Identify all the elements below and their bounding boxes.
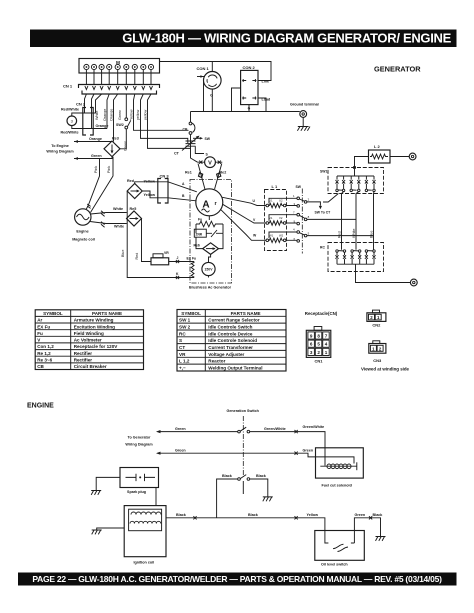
reactor L1 winding W [266, 233, 286, 242]
fuel cut solenoid S [316, 448, 364, 488]
svg-text:White: White [352, 229, 356, 238]
wire green/white to solenoid [250, 425, 325, 466]
wire to CN2 pin1 [85, 94, 87, 113]
svg-text:7: 7 [325, 333, 328, 338]
svg-text:Current Transformer: Current Transformer [208, 345, 253, 350]
label to generator wiring diagram [125, 436, 153, 447]
svg-text:Fuel cut solenoid: Fuel cut solenoid [322, 484, 353, 488]
breaker switch CB [183, 112, 198, 163]
svg-text:Spark plug: Spark plug [127, 490, 146, 494]
voltage adjuster VR [151, 251, 169, 265]
wire yellow 2 [141, 94, 188, 143]
svg-text:Wiring Diagram: Wiring Diagram [46, 150, 74, 154]
wire CON1 drop [211, 62, 213, 72]
wire black left of SW2b [217, 479, 238, 518]
connector CN3 detail [369, 341, 386, 363]
connector CN3 [158, 174, 170, 204]
svg-text:Re3: Re3 [112, 137, 119, 141]
wire B from Re4 to generator [142, 191, 196, 201]
svg-text:GENERATOR: GENERATOR [374, 65, 421, 74]
svg-text:Yellow: Yellow [144, 193, 156, 197]
wire green lower [156, 449, 354, 464]
ground symbol [297, 127, 310, 131]
svg-text:J: J [177, 256, 179, 260]
svg-text:CT: CT [179, 345, 185, 350]
svg-text:ZNR: ZNR [196, 232, 203, 236]
svg-text:Re 3~6: Re 3~6 [37, 358, 52, 363]
svg-text:Engine: Engine [76, 230, 88, 234]
svg-text:Rectifier: Rectifier [74, 358, 93, 363]
svg-text:Voltage Adjuster: Voltage Adjuster [208, 352, 244, 357]
wire spark plug to ground [96, 477, 120, 490]
svg-text:SW 1: SW 1 [179, 318, 191, 323]
svg-text:L 1: L 1 [272, 184, 278, 189]
svg-text:To Generator: To Generator [128, 436, 151, 440]
svg-text:Ar: Ar [37, 318, 42, 323]
svg-text:Green: Green [124, 141, 128, 151]
idle control device RC box [320, 243, 384, 272]
svg-text:Black: Black [248, 513, 259, 517]
rectifier Re1 [185, 164, 205, 190]
svg-text:GLW-180H — WIRING DIAGRAM GENE: GLW-180H — WIRING DIAGRAM GENERATOR/ ENG… [122, 31, 451, 46]
wire blue drop [369, 192, 374, 243]
svg-text:Red: Red [337, 231, 341, 238]
svg-text:CN2: CN2 [372, 323, 381, 328]
ground spark plug [91, 491, 101, 495]
svg-text:Orange: Orange [103, 109, 107, 121]
svg-text:Re 1,2: Re 1,2 [37, 351, 51, 356]
svg-text:S: S [179, 338, 182, 343]
svg-text:L 2: L 2 [374, 144, 380, 149]
svg-text:Black: Black [373, 513, 384, 517]
svg-text:CT: CT [174, 152, 180, 156]
svg-text:9: 9 [310, 333, 313, 338]
svg-text:Green: Green [91, 154, 102, 158]
svg-text:Orange: Orange [96, 124, 109, 128]
svg-text:V: V [208, 160, 212, 166]
rectifier Re5 [127, 207, 142, 226]
wire L2 to SW1 [355, 157, 369, 168]
wire CON1 to bus [204, 81, 213, 112]
svg-text:V2: V2 [279, 216, 283, 220]
svg-text:SW1: SW1 [320, 170, 327, 174]
switch SW2a [238, 427, 250, 433]
svg-text:Brushless Ac Generator: Brushless Ac Generator [189, 286, 232, 290]
svg-text:ENGINE: ENGINE [27, 403, 54, 410]
svg-text:VR: VR [179, 352, 186, 357]
svg-text:Pink: Pink [94, 166, 98, 173]
svg-text:SYMBOL: SYMBOL [181, 311, 201, 316]
svg-text:Field Winding: Field Winding [74, 331, 104, 336]
ground terminal [290, 103, 319, 127]
connector CN1 detail [306, 327, 331, 364]
terminal strip M [79, 59, 160, 74]
svg-text:Red: Red [127, 179, 135, 183]
wire yellow 1 [134, 94, 189, 130]
current transformer CT [174, 136, 211, 157]
svg-text:Pink: Pink [107, 166, 111, 173]
svg-text:2: 2 [317, 350, 320, 355]
svg-text:EX Fu: EX Fu [37, 324, 50, 329]
reactor L1 winding U [266, 199, 286, 208]
svg-text:yellow: yellow [136, 109, 140, 120]
wire RC to minus terminal [356, 264, 411, 282]
svg-text:Black: Black [256, 474, 267, 478]
svg-text:Yellow: Yellow [307, 513, 319, 517]
svg-text:White: White [114, 225, 124, 229]
magneto coil [72, 209, 95, 242]
wire white lower to Re5 [90, 222, 127, 229]
svg-text:CON 2: CON 2 [243, 65, 256, 70]
connector CN1 [63, 84, 160, 95]
svg-text:EX Fu: EX Fu [187, 257, 197, 261]
label to engine wiring diagram [46, 144, 74, 154]
rectifier Re2 [215, 164, 227, 190]
svg-text:Receptacle for 120V: Receptacle for 120V [74, 344, 119, 349]
generation switch gang line [242, 416, 244, 477]
wire green to engine [74, 154, 112, 160]
wire pink 1 [86, 159, 100, 210]
svg-text:CN3: CN3 [373, 358, 382, 363]
svg-text:Re6: Re6 [194, 244, 200, 248]
svg-text:Red: Red [135, 253, 139, 260]
connector CN2 [76, 102, 93, 136]
svg-text:Re1: Re1 [185, 171, 192, 175]
wire circle to Fu [208, 216, 210, 220]
welding output terminal + [390, 153, 416, 160]
svg-text:Re2: Re2 [220, 171, 227, 175]
wire to CN2 pin2 [92, 94, 95, 129]
current range selector SW1 box [320, 166, 384, 193]
svg-text:CB: CB [183, 128, 188, 132]
svg-text:L 1,2: L 1,2 [179, 359, 190, 364]
wire W from generator [221, 210, 266, 241]
svg-text:Line: Line [262, 79, 270, 83]
svg-text:RC: RC [320, 246, 325, 250]
svg-text:Ground terminal: Ground terminal [290, 103, 319, 107]
svg-text:Excitation Winding: Excitation Winding [74, 324, 115, 329]
svg-text:Green/White: Green/White [303, 425, 325, 429]
svg-text:Re5: Re5 [130, 207, 137, 211]
svg-text:W2: W2 [279, 233, 284, 237]
ground ignition coil [92, 530, 102, 534]
wire top bus from strip to CB [160, 62, 272, 81]
svg-text:+,−: +,− [179, 366, 186, 371]
svg-text:Green: Green [303, 449, 314, 453]
svg-text:yellow: yellow [143, 109, 147, 120]
brushless generator dashed box [190, 180, 232, 284]
svg-text:CN 2: CN 2 [76, 102, 86, 107]
reactor L1 box [265, 184, 287, 251]
welding output terminal minus [410, 279, 417, 286]
svg-text:Oil level switch: Oil level switch [321, 563, 348, 567]
wire L1 taps to selector [269, 198, 297, 241]
svg-text:5: 5 [317, 342, 320, 347]
svg-text:RC: RC [179, 331, 186, 336]
wire orange 2 [114, 94, 118, 142]
svg-text:Current Range Selector: Current Range Selector [208, 318, 260, 323]
wire white upper to Re5 [91, 207, 127, 216]
pilot lamp [61, 108, 109, 135]
svg-text:Black: Black [176, 513, 187, 517]
wire U from generator [222, 197, 266, 205]
svg-text:CB: CB [37, 364, 44, 369]
resistor Fu [196, 218, 223, 227]
svg-text:Armature Winding: Armature Winding [74, 318, 114, 323]
svg-text:CN1: CN1 [314, 359, 323, 364]
svg-text:Generation Switch: Generation Switch [227, 409, 260, 413]
svg-text:Receptacle(CN): Receptacle(CN) [305, 311, 338, 316]
svg-text:Fu: Fu [37, 331, 43, 336]
wire ground bus [191, 111, 300, 113]
footer bar [18, 573, 457, 586]
svg-text:Orange: Orange [109, 109, 113, 121]
svg-text:1: 1 [325, 350, 328, 355]
svg-text:SW: SW [205, 137, 211, 141]
svg-text:CN 1: CN 1 [63, 84, 73, 89]
svg-text:Idle Controle Switch: Idle Controle Switch [208, 325, 252, 330]
svg-text:Ignition coil: Ignition coil [134, 561, 155, 565]
rectifier Re4 [127, 179, 155, 199]
rectifier Re6 [194, 233, 224, 254]
svg-text:8: 8 [317, 333, 320, 338]
svg-text:Green: Green [175, 427, 186, 431]
svg-text:Green: Green [355, 513, 366, 517]
wire selector row3 to blue [307, 235, 374, 237]
wire black ignition to oil switch [166, 513, 328, 543]
svg-text:SYMBOL: SYMBOL [43, 311, 63, 316]
svg-text:Blue: Blue [369, 231, 373, 238]
wire pink 2 [91, 157, 114, 213]
svg-text:Green: Green [118, 110, 122, 120]
varistor ZNR [194, 224, 223, 237]
svg-text:SW To CT: SW To CT [315, 211, 332, 215]
svg-text:Wiring Diagram: Wiring Diagram [125, 443, 153, 447]
svg-text:CN 3: CN 3 [160, 174, 170, 179]
svg-text:Red/White: Red/White [61, 108, 79, 112]
ground right of SW2b [263, 497, 273, 501]
svg-text:U2: U2 [279, 199, 283, 203]
svg-text:Magneto coil: Magneto coil [72, 238, 95, 242]
wire ignition coil left ground [97, 528, 125, 530]
svg-text:VR: VR [164, 251, 169, 255]
wire K [176, 272, 179, 279]
selector contacts row2 [293, 210, 310, 225]
svg-text:Black: Black [222, 474, 233, 478]
svg-text:Green/White: Green/White [264, 427, 286, 431]
connector CN2 detail [367, 310, 386, 327]
svg-text:Circuit Breaker: Circuit Breaker [74, 364, 107, 369]
wire orange 1 [107, 94, 109, 129]
ac voltmeter V [198, 157, 223, 168]
svg-text:Welding Output Terminal: Welding Output Terminal [208, 366, 262, 371]
ignition coil [124, 488, 166, 565]
svg-text:4: 4 [325, 342, 328, 347]
reactor L2 [369, 144, 391, 163]
generator armature Ar [196, 189, 223, 216]
wire orange to engine [74, 137, 112, 143]
oil level switch [315, 531, 365, 567]
svg-text:PARTS NAME: PARTS NAME [92, 311, 122, 316]
reactor L1 winding V [266, 216, 286, 225]
wire blue from Re4 down [121, 191, 194, 278]
wire yellow 3 [148, 94, 191, 148]
svg-text:Orange: Orange [89, 137, 102, 141]
parts table left [35, 310, 143, 370]
svg-text:Reactor: Reactor [208, 359, 225, 364]
svg-text:V1: V1 [269, 216, 273, 220]
header bar [30, 30, 457, 48]
svg-text:Yellow: Yellow [129, 109, 133, 120]
wire SW to CT [307, 194, 339, 215]
wire CB load to bus [232, 88, 267, 112]
selector contacts row1 [293, 194, 310, 207]
field winding 150V [202, 254, 215, 277]
spark plug [120, 468, 159, 495]
svg-text:Fu: Fu [198, 218, 202, 222]
rectifier Re3 [104, 137, 120, 157]
wire A from Re4 to generator [135, 182, 197, 192]
selector switch SW line [301, 189, 303, 254]
wire white drop [352, 192, 359, 243]
excitation winding EX Fu [187, 257, 197, 278]
circuit breaker CON2 [241, 65, 271, 111]
svg-text:SW 2: SW 2 [179, 325, 191, 330]
svg-text:Ac Voltmeter: Ac Voltmeter [74, 338, 102, 343]
parts table right [177, 310, 286, 372]
wire green to generator top [156, 427, 238, 433]
wire oil switch to ground [354, 513, 383, 543]
wire green [125, 94, 127, 118]
svg-text:Green: Green [175, 449, 186, 453]
svg-text:Viewed at winding side: Viewed at winding side [361, 367, 410, 372]
svg-text:To Engine: To Engine [51, 144, 69, 148]
svg-text:Rectifier: Rectifier [74, 351, 93, 356]
svg-text:150V: 150V [205, 268, 214, 272]
wire red from Re5 down [135, 219, 151, 262]
svg-text:PAGE 22 — GLW-180H A.C. GENERA: PAGE 22 — GLW-180H A.C. GENERATOR/WELDER… [32, 574, 442, 584]
selector contacts row3 [293, 228, 310, 243]
wires strip to CN1 [86, 70, 151, 85]
wire V from generator [223, 204, 266, 223]
svg-text:Idle Controle Solenoid: Idle Controle Solenoid [208, 338, 257, 343]
wire red drop [337, 192, 343, 243]
svg-text:W1: W1 [269, 233, 274, 237]
svg-text:Blue: Blue [121, 250, 125, 257]
svg-text:6: 6 [310, 342, 313, 347]
svg-text:Red/White: Red/White [61, 131, 79, 135]
wire selector row2 to white [307, 218, 356, 220]
svg-text:U1: U1 [269, 199, 273, 203]
svg-text:White: White [113, 207, 123, 211]
svg-text:SW2: SW2 [116, 123, 124, 127]
wire labels below CN1 [95, 109, 147, 121]
switch SW2b [222, 474, 267, 494]
svg-text:Con 1,2: Con 1,2 [37, 344, 54, 349]
ground oil switch [376, 537, 386, 541]
wire black right of SW2b to ground [250, 479, 268, 497]
svg-text:Idle Controle Device: Idle Controle Device [208, 331, 253, 336]
wire J [169, 256, 194, 263]
svg-text:SW: SW [296, 185, 302, 189]
svg-text:CON 1: CON 1 [197, 66, 210, 71]
svg-text:PARTS NAME: PARTS NAME [231, 311, 261, 316]
svg-text:3: 3 [310, 350, 313, 355]
receptacle CON1 [197, 66, 222, 98]
wire white [96, 94, 102, 113]
